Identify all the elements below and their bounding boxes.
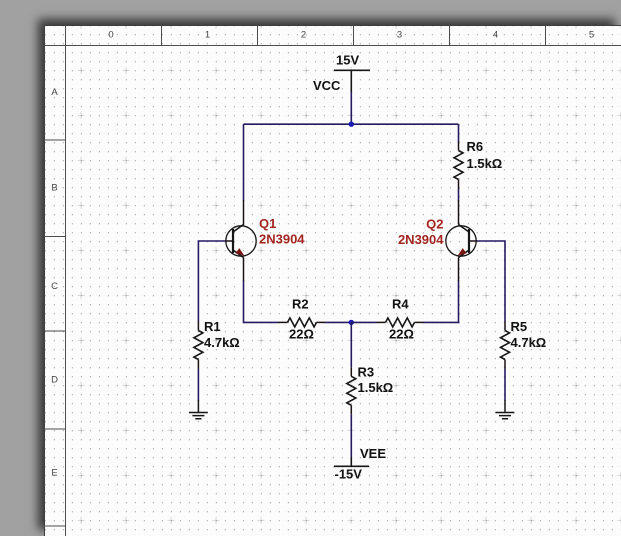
junction emitter rail bbox=[349, 320, 354, 325]
ground right bbox=[496, 400, 515, 419]
svg-text:E: E bbox=[51, 468, 57, 479]
wire top rail bbox=[244, 123, 459, 125]
svg-text:R6: R6 bbox=[467, 139, 484, 154]
resistor R1 bbox=[194, 322, 203, 369]
wire junction to R3 bbox=[350, 322, 352, 367]
wire rail to R6 bbox=[458, 124, 460, 142]
junction VCC rail bbox=[349, 122, 354, 127]
svg-text:R2: R2 bbox=[292, 297, 309, 312]
power VCC symbol bbox=[334, 70, 370, 92]
svg-text:R5: R5 bbox=[511, 319, 528, 334]
wire R6 to Q2 collector bbox=[458, 189, 460, 201]
resistor R3 bbox=[347, 367, 356, 414]
resistor R5 bbox=[501, 322, 510, 369]
svg-text:0: 0 bbox=[108, 30, 113, 41]
svg-text:1.5kΩ: 1.5kΩ bbox=[358, 380, 394, 395]
ruler dividers left bbox=[44, 140, 66, 526]
wire Q1 emitter to rail bbox=[244, 281, 279, 323]
svg-text:4.7kΩ: 4.7kΩ bbox=[511, 335, 547, 350]
svg-text:VEE: VEE bbox=[360, 446, 386, 461]
svg-text:22Ω: 22Ω bbox=[289, 327, 314, 342]
svg-text:-15V: -15V bbox=[335, 467, 363, 482]
svg-text:VCC: VCC bbox=[313, 78, 341, 93]
ruler ticks top bbox=[162, 26, 546, 46]
svg-text:3: 3 bbox=[397, 30, 402, 41]
transistor Q2 bbox=[446, 200, 477, 281]
resistor R4 bbox=[377, 318, 424, 327]
svg-text:4: 4 bbox=[493, 30, 498, 41]
wire Q1 base to R1 bbox=[198, 241, 225, 322]
power VEE symbol bbox=[334, 457, 369, 466]
svg-text:5: 5 bbox=[589, 30, 594, 41]
svg-text:D: D bbox=[51, 375, 58, 386]
wire R1 to ground bbox=[197, 369, 199, 401]
svg-text:R4: R4 bbox=[392, 297, 409, 312]
svg-text:Q2: Q2 bbox=[426, 217, 443, 232]
svg-text:2N3904: 2N3904 bbox=[398, 232, 444, 247]
svg-text:2N3904: 2N3904 bbox=[259, 232, 305, 247]
resistor R6 bbox=[454, 142, 463, 190]
svg-text:B: B bbox=[51, 183, 57, 194]
wire rail to Q1 collector bbox=[243, 124, 245, 200]
svg-text:Q1: Q1 bbox=[259, 216, 276, 231]
svg-text:R1: R1 bbox=[204, 319, 221, 334]
resistor R2 bbox=[279, 318, 326, 327]
svg-text:C: C bbox=[51, 281, 58, 292]
wire R5 to ground bbox=[504, 369, 506, 401]
svg-text:R3: R3 bbox=[358, 365, 375, 380]
svg-text:22Ω: 22Ω bbox=[389, 327, 414, 342]
transistor Q1 bbox=[225, 200, 256, 281]
svg-text:1: 1 bbox=[205, 30, 210, 41]
wire R2 to junction bbox=[326, 321, 352, 323]
wire R3 to VEE bbox=[350, 414, 352, 457]
wire VCC stub bbox=[350, 92, 352, 124]
svg-text:A: A bbox=[51, 87, 58, 98]
wire junction to R4 bbox=[351, 321, 376, 323]
wire Q2 base to R5 bbox=[477, 241, 506, 322]
svg-text:15V: 15V bbox=[336, 53, 359, 68]
wire R4 to Q2 emitter bbox=[424, 281, 459, 323]
svg-text:2: 2 bbox=[301, 30, 306, 41]
svg-text:4.7kΩ: 4.7kΩ bbox=[204, 335, 240, 350]
ground left bbox=[189, 400, 208, 419]
svg-text:1.5kΩ: 1.5kΩ bbox=[467, 156, 503, 171]
